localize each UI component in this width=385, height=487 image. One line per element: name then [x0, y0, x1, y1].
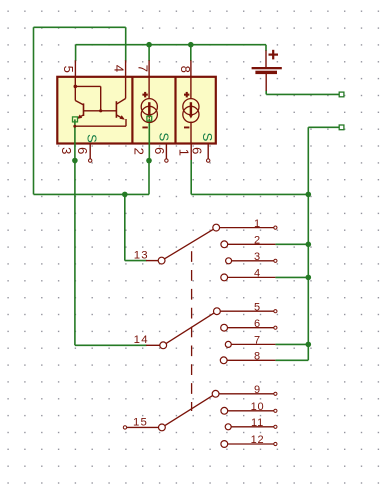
- svg-text:8: 8: [254, 351, 261, 363]
- svg-text:S: S: [200, 133, 215, 142]
- svg-text:6: 6: [254, 318, 261, 330]
- svg-text:6: 6: [190, 147, 205, 154]
- svg-text:11: 11: [251, 417, 264, 429]
- svg-text:7: 7: [135, 65, 150, 72]
- svg-text:3: 3: [59, 147, 74, 154]
- svg-text:1: 1: [254, 218, 261, 230]
- svg-text:2: 2: [254, 235, 261, 247]
- svg-text:7: 7: [254, 335, 261, 347]
- svg-text:1: 1: [176, 149, 191, 156]
- svg-text:6: 6: [75, 147, 90, 154]
- svg-text:2: 2: [132, 148, 147, 155]
- svg-text:15: 15: [133, 417, 148, 429]
- svg-text:S: S: [84, 134, 99, 143]
- svg-text:5: 5: [61, 66, 76, 73]
- svg-text:12: 12: [251, 434, 265, 446]
- svg-text:3: 3: [254, 251, 261, 263]
- svg-text:5: 5: [254, 301, 261, 313]
- svg-text:4: 4: [254, 268, 261, 280]
- svg-text:9: 9: [254, 384, 261, 396]
- svg-text:4: 4: [111, 65, 126, 72]
- svg-text:10: 10: [251, 401, 265, 413]
- svg-text:S: S: [156, 132, 171, 141]
- svg-text:13: 13: [134, 249, 149, 261]
- svg-text:14: 14: [134, 334, 149, 346]
- svg-text:8: 8: [178, 66, 193, 73]
- svg-text:6: 6: [152, 147, 167, 154]
